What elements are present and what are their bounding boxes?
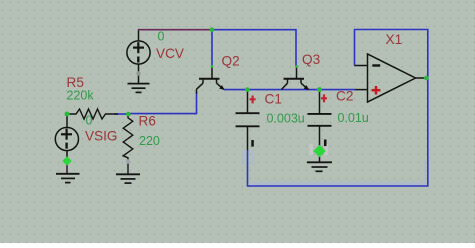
svg-text:VCV: VCV <box>156 46 184 61</box>
svg-text:VSIG: VSIG <box>85 128 117 143</box>
svg-text:220: 220 <box>139 134 160 148</box>
svg-text:C2: C2 <box>336 89 353 104</box>
svg-text:Q3: Q3 <box>302 52 320 67</box>
svg-text:220k: 220k <box>67 89 95 103</box>
svg-text:0: 0 <box>86 114 93 128</box>
svg-text:R6: R6 <box>139 113 156 128</box>
svg-text:0.003u: 0.003u <box>267 112 305 126</box>
svg-text:0: 0 <box>158 30 165 44</box>
svg-text:X1: X1 <box>386 32 403 47</box>
svg-text:0.01u: 0.01u <box>338 111 369 125</box>
svg-text:Q2: Q2 <box>222 53 240 68</box>
svg-text:C1: C1 <box>265 92 282 107</box>
